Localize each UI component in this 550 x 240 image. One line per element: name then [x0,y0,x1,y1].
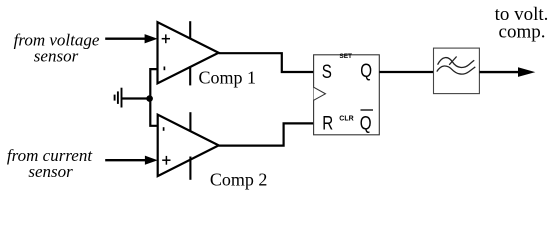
U2 negative supply pin [189,157,191,180]
svg-text:comp.: comp. [499,21,546,42]
U2 plus input marker [162,156,170,165]
U1 plus input marker [162,34,170,43]
op-amp U1 (Comp 1) triangle [158,22,219,83]
svg-text:sensor: sensor [34,47,79,66]
svg-text:CLR: CLR [339,116,353,123]
wire ground to node A [122,97,150,99]
svg-text:SET: SET [339,53,352,60]
svg-text:R: R [322,112,333,134]
U3 pin label Q-bar [360,110,373,134]
wire U2 output to latch R input [219,123,314,145]
label: to volt. comp. [495,4,549,42]
U2 minus input marker [163,127,165,131]
U3 clock chevron [314,87,326,100]
U2 positive supply pin [189,112,191,131]
svg-text:S: S [322,60,332,82]
input arrow from voltage sensor [105,34,157,43]
node A junction dot [146,95,153,102]
SR latch U3 box [314,55,380,135]
svg-text:Q: Q [360,59,372,81]
input arrow from current sensor [105,156,158,165]
wire U1 output to latch S input [219,53,314,72]
filter U4 box [434,48,480,94]
op-amp U2 (Comp 2) triangle [158,115,219,176]
filter U4 wave symbol [437,57,476,75]
ground [115,88,122,108]
svg-text:sensor: sensor [28,162,73,181]
U1 negative supply pin [189,66,191,85]
label: from voltage sensor [14,30,100,65]
svg-text:Comp 2: Comp 2 [210,169,268,189]
U1 positive supply pin [189,21,191,39]
wire latch Q output to filter [379,71,433,73]
svg-text:Q: Q [360,112,372,134]
U1 minus input marker [163,67,165,71]
svg-text:Comp 1: Comp 1 [199,67,257,87]
wire U1 inverting input to node A [150,69,157,99]
output arrow [479,67,535,77]
label: from current sensor [7,146,93,181]
wire node A to U2 inverting input [150,99,158,126]
